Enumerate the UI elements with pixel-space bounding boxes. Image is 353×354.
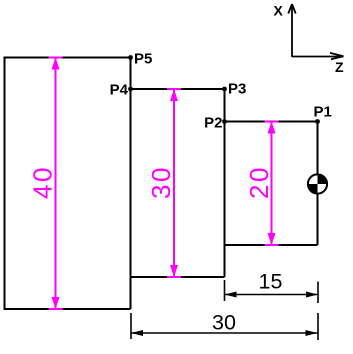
svg-text:X: X: [274, 3, 284, 19]
svg-text:Z: Z: [335, 59, 344, 75]
svg-text:40: 40: [28, 165, 58, 199]
svg-text:30: 30: [146, 165, 176, 199]
svg-text:20: 20: [244, 165, 274, 199]
svg-text:P4: P4: [110, 82, 129, 99]
svg-text:15: 15: [259, 270, 283, 294]
svg-text:P2: P2: [204, 115, 222, 132]
svg-text:P3: P3: [228, 81, 246, 98]
svg-text:P5: P5: [134, 51, 152, 68]
svg-text:P1: P1: [314, 104, 332, 121]
svg-text:30: 30: [212, 311, 236, 335]
